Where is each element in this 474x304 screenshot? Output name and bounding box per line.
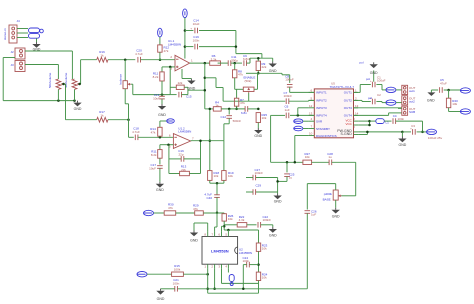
wire bbox=[247, 224, 257, 226]
wire bbox=[36, 38, 38, 42]
wire bbox=[290, 87, 315, 92]
svg-text:10k: 10k bbox=[228, 217, 233, 221]
blue component TP2 bbox=[228, 269, 234, 286]
svg-text:47k: 47k bbox=[240, 101, 245, 105]
wire bbox=[431, 89, 438, 91]
ground C5 bbox=[427, 90, 435, 103]
svg-text:50k/volume: 50k/volume bbox=[64, 72, 68, 88]
svg-text:J4: J4 bbox=[17, 19, 21, 23]
wire bbox=[160, 143, 174, 146]
svg-text:14: 14 bbox=[355, 111, 359, 115]
wire bbox=[25, 51, 72, 79]
wire bbox=[235, 78, 244, 90]
wire bbox=[154, 212, 165, 214]
wire bbox=[141, 59, 176, 61]
svg-text:1uF: 1uF bbox=[285, 108, 290, 112]
wire bbox=[222, 221, 226, 232]
supply V+ op-amp bbox=[183, 9, 188, 18]
svg-text:INPUT2: INPUT2 bbox=[316, 98, 327, 102]
svg-text:1k: 1k bbox=[215, 103, 219, 107]
svg-text:pol: pol bbox=[360, 61, 364, 65]
wire bbox=[159, 52, 161, 60]
svg-text:100nF: 100nF bbox=[255, 171, 264, 175]
svg-text:47k: 47k bbox=[168, 206, 173, 210]
capacitor C14 10uF bbox=[185, 19, 236, 34]
wire bbox=[243, 265, 246, 289]
capacitor C6 1uF bbox=[285, 105, 290, 119]
connector X2 out2 bbox=[402, 96, 416, 105]
svg-text:LM4558N: LM4558N bbox=[178, 130, 191, 134]
svg-text:out2: out2 bbox=[409, 100, 415, 104]
ground op-amp U1.1 bbox=[182, 69, 196, 90]
svg-text:1u: 1u bbox=[289, 176, 293, 180]
svg-text:LM4558N: LM4558N bbox=[168, 42, 181, 46]
potentiometer R5 balance bbox=[118, 74, 130, 89]
svg-text:22p: 22p bbox=[178, 152, 183, 156]
jumper STANDBY bbox=[294, 126, 309, 131]
resistor R9 22k bbox=[256, 57, 267, 71]
wire bbox=[138, 136, 174, 139]
capacitor C17 10uF bbox=[149, 158, 163, 170]
resistor R20 10k bbox=[446, 90, 458, 108]
wire bbox=[449, 108, 461, 112]
wire bbox=[258, 230, 260, 243]
svg-text:INPUT1: INPUT1 bbox=[316, 91, 327, 95]
resistor R11b 8.2k bbox=[151, 145, 162, 159]
svg-text:S-GND: S-GND bbox=[341, 132, 353, 136]
wire bbox=[376, 102, 382, 103]
wire bbox=[205, 78, 249, 101]
capacitor C8 100nF bbox=[285, 75, 294, 88]
inductor L1 bbox=[370, 119, 390, 125]
capacitor C12 500nF bbox=[220, 109, 241, 123]
resistor R29 47k bbox=[193, 204, 203, 216]
svg-text:(50k): (50k) bbox=[245, 79, 252, 83]
wire bbox=[210, 180, 224, 184]
wire bbox=[246, 72, 258, 74]
ground U2 pin8 bbox=[190, 223, 208, 243]
jumper remote+ bbox=[460, 88, 470, 93]
svg-text:22k: 22k bbox=[178, 81, 183, 85]
potentiometer R1 50k/volume bbox=[48, 72, 64, 89]
resistor R26 10k bbox=[222, 213, 234, 221]
svg-text:100n: 100n bbox=[398, 117, 405, 121]
resistor R18 10k bbox=[208, 171, 220, 181]
svg-text:stereo-in: stereo-in bbox=[3, 28, 7, 40]
svg-text:C4: C4 bbox=[393, 114, 397, 118]
wire bbox=[206, 269, 209, 293]
wire bbox=[17, 29, 28, 38]
wire bbox=[203, 212, 224, 214]
resistor R25 10k bbox=[256, 113, 267, 123]
svg-text:STANDBY: STANDBY bbox=[316, 127, 330, 131]
wire OUT1 bbox=[354, 85, 371, 93]
svg-text:C3: C3 bbox=[411, 124, 415, 128]
resistor R27 10k bbox=[303, 152, 312, 165]
svg-text:47k: 47k bbox=[151, 131, 156, 135]
svg-text:OUT3: OUT3 bbox=[344, 106, 352, 110]
svg-text:C29: C29 bbox=[256, 184, 262, 188]
wire bbox=[25, 65, 58, 80]
jumper TP bbox=[160, 119, 174, 123]
svg-text:TDA7377L-V3 & 7: TDA7377L-V3 & 7 bbox=[330, 85, 355, 89]
svg-text:3.3k: 3.3k bbox=[211, 57, 217, 61]
svg-text:GND: GND bbox=[332, 215, 340, 219]
wire bbox=[224, 229, 258, 232]
capacitor C21 100n bbox=[173, 278, 180, 291]
audio jack X1 bbox=[29, 28, 44, 38]
wire bbox=[261, 225, 273, 227]
svg-text:47k: 47k bbox=[164, 49, 169, 53]
svg-text:p400k: p400k bbox=[324, 192, 333, 196]
wire bbox=[246, 191, 253, 193]
svg-text:10k: 10k bbox=[262, 276, 267, 280]
resistor R15 100k bbox=[172, 264, 184, 276]
svg-text:GND: GND bbox=[190, 239, 198, 243]
capacitor C16 22p bbox=[178, 149, 184, 162]
wire bbox=[224, 118, 229, 140]
svg-text:J2: J2 bbox=[11, 50, 15, 54]
svg-text:balance: balance bbox=[118, 74, 122, 85]
svg-text:J3: J3 bbox=[11, 63, 15, 67]
svg-text:GND: GND bbox=[274, 200, 282, 204]
svg-text:50k/volume: 50k/volume bbox=[48, 72, 52, 88]
trimmer ENABLE 50k bbox=[243, 76, 255, 93]
wire bbox=[358, 131, 404, 135]
wire bbox=[257, 251, 260, 272]
svg-text:10k: 10k bbox=[452, 102, 457, 106]
resistor R3 22k bbox=[176, 81, 184, 90]
capacitor C20 4.7uF bbox=[135, 49, 143, 63]
capacitor C40 4.7uF bbox=[204, 183, 219, 200]
wire bbox=[231, 62, 242, 65]
svg-text:GND: GND bbox=[74, 107, 82, 111]
wire bbox=[176, 212, 195, 214]
svg-text:1uF: 1uF bbox=[311, 212, 316, 216]
svg-text:10k: 10k bbox=[228, 174, 233, 178]
svg-text:GND: GND bbox=[370, 71, 378, 75]
svg-text:GND: GND bbox=[269, 234, 277, 238]
svg-text:GND: GND bbox=[156, 188, 164, 192]
resistor R12 47k bbox=[158, 45, 170, 53]
op-amp U1.1 LM4558N bbox=[168, 39, 193, 71]
svg-text:GND: GND bbox=[269, 69, 277, 73]
ground bbox=[269, 58, 278, 73]
svg-text:BASE: BASE bbox=[323, 198, 331, 202]
svg-text:1u: 1u bbox=[328, 155, 332, 159]
svg-text:GND: GND bbox=[158, 113, 166, 117]
resistor R7 47k bbox=[234, 89, 245, 106]
wire bbox=[183, 273, 209, 276]
svg-text:INPUT3: INPUT3 bbox=[316, 106, 327, 110]
capacitor C9 6.8nF bbox=[243, 54, 251, 66]
capacitor C7 100nF bbox=[284, 91, 293, 104]
wire bbox=[3, 99, 76, 102]
svg-text:+: + bbox=[370, 79, 372, 83]
wire bbox=[332, 162, 356, 196]
resistor R6 3.3k bbox=[210, 54, 221, 65]
wire bbox=[218, 62, 229, 64]
svg-text:4.7uF: 4.7uF bbox=[132, 130, 140, 134]
wire bbox=[190, 62, 210, 65]
capacitor C18 4.7uF bbox=[129, 127, 141, 141]
wire OUT4 bbox=[354, 113, 402, 116]
svg-text:LM4558N: LM4558N bbox=[239, 251, 252, 255]
svg-text:OUT1: OUT1 bbox=[344, 91, 352, 95]
capacitor C13 6.8n bbox=[241, 106, 248, 115]
wire bbox=[235, 31, 262, 59]
wire bbox=[312, 161, 330, 163]
svg-text:4.7uF: 4.7uF bbox=[135, 52, 143, 56]
wire bus bbox=[177, 288, 307, 291]
connector X3 SUB bbox=[402, 106, 416, 115]
IC U2 LM4558N bbox=[202, 232, 252, 269]
svg-text:GND: GND bbox=[157, 297, 165, 301]
svg-text:10: 10 bbox=[309, 132, 313, 136]
wire bbox=[191, 139, 224, 142]
wire bbox=[290, 108, 314, 117]
svg-text:GND: GND bbox=[399, 143, 407, 147]
svg-text:C2: C2 bbox=[377, 93, 381, 97]
svg-text:+: + bbox=[190, 26, 192, 30]
wire bbox=[62, 83, 65, 120]
jumper power +12V bbox=[427, 129, 437, 134]
resistor R22 4.3k bbox=[224, 215, 247, 227]
svg-text:10uF: 10uF bbox=[153, 97, 160, 101]
svg-text:GND: GND bbox=[254, 134, 262, 138]
wire bbox=[184, 18, 187, 59]
capacitor C1 100uF bbox=[366, 76, 386, 88]
svg-text:12: 12 bbox=[309, 104, 313, 108]
wire bbox=[258, 73, 289, 75]
svg-text:47k: 47k bbox=[193, 207, 198, 211]
capacitor C29 100n bbox=[253, 184, 278, 195]
svg-text:10k: 10k bbox=[262, 116, 267, 120]
ground bbox=[156, 182, 165, 192]
svg-text:LM4558N: LM4558N bbox=[211, 248, 229, 253]
svg-text:VCC: VCC bbox=[345, 122, 352, 126]
wire bbox=[147, 273, 172, 275]
wire bbox=[204, 63, 207, 109]
svg-text:8.2k: 8.2k bbox=[151, 153, 157, 157]
wire bbox=[170, 67, 176, 95]
capacitor C25 1u bbox=[284, 162, 295, 179]
svg-text:10uF: 10uF bbox=[149, 167, 156, 171]
connector J2 bbox=[11, 48, 26, 59]
wire bbox=[249, 93, 286, 101]
svg-text:100n: 100n bbox=[243, 259, 250, 263]
wire bbox=[248, 108, 260, 111]
wire bbox=[235, 106, 238, 110]
wire bbox=[254, 73, 258, 89]
svg-text:100nF: 100nF bbox=[284, 94, 293, 98]
wire bbox=[169, 145, 181, 174]
capacitor C19 100n bbox=[185, 35, 236, 49]
svg-text:100nF: 100nF bbox=[285, 78, 294, 82]
wire bbox=[417, 131, 428, 133]
svg-text:out1: out1 bbox=[409, 89, 415, 93]
wire bbox=[216, 197, 219, 214]
svg-text:47uF: 47uF bbox=[440, 82, 447, 86]
svg-text:C12: C12 bbox=[220, 115, 226, 119]
svg-text:10k: 10k bbox=[262, 247, 267, 251]
svg-text:INPUT4: INPUT4 bbox=[316, 114, 327, 118]
svg-text:1k: 1k bbox=[100, 114, 104, 118]
resistor R14 47k bbox=[150, 121, 162, 137]
svg-text:10uF: 10uF bbox=[193, 22, 200, 26]
wire bbox=[159, 37, 161, 45]
wire bbox=[209, 109, 212, 171]
wire bbox=[222, 269, 259, 284]
ground bbox=[360, 61, 379, 82]
jumper remote- bbox=[460, 109, 470, 114]
connector J4 bbox=[3, 19, 20, 43]
svg-text:100k: 100k bbox=[174, 267, 181, 271]
ground bbox=[332, 208, 341, 219]
ground bbox=[156, 289, 165, 301]
capacitor C15 bbox=[179, 92, 192, 99]
resistor R19 10k bbox=[222, 141, 234, 181]
wire OUT3 bbox=[354, 107, 402, 110]
resistor R4 1k bbox=[205, 100, 221, 111]
wire bbox=[246, 177, 253, 179]
resistor R24 10k bbox=[256, 272, 267, 280]
svg-text:13: 13 bbox=[355, 104, 359, 108]
svg-text:OUT2: OUT2 bbox=[344, 98, 352, 102]
capacitor C27 100nF bbox=[253, 168, 278, 180]
wire bbox=[335, 184, 337, 208]
resistor R13 22k bbox=[180, 165, 190, 176]
svg-text:GND: GND bbox=[427, 99, 435, 103]
ground bbox=[269, 227, 278, 238]
svg-text:10k: 10k bbox=[214, 174, 219, 178]
wire bbox=[376, 85, 382, 90]
wire bbox=[396, 121, 424, 133]
svg-text:6.8n: 6.8n bbox=[241, 111, 247, 115]
svg-text:pol: pol bbox=[366, 77, 370, 81]
capacitor C11 390p bbox=[228, 55, 238, 66]
wire bbox=[271, 161, 303, 164]
svg-text:13: 13 bbox=[309, 111, 313, 115]
resistor R8 47k bbox=[233, 63, 244, 78]
jumper out1 bbox=[382, 87, 402, 92]
capacitor C5 47uF bbox=[440, 78, 447, 93]
wire bbox=[271, 115, 285, 162]
wire bbox=[221, 108, 245, 111]
svg-text:22k: 22k bbox=[262, 65, 267, 69]
svg-text:22k: 22k bbox=[181, 168, 186, 172]
wire bbox=[306, 213, 308, 288]
svg-text:100nF: 100nF bbox=[263, 218, 272, 222]
resistor R11 8.2k bbox=[153, 67, 165, 81]
wire bbox=[159, 168, 161, 182]
wire bbox=[215, 213, 217, 232]
wire bbox=[161, 288, 175, 290]
capacitor C2 100uF bbox=[368, 93, 381, 104]
wire DIAGNOSTICS bbox=[295, 136, 309, 163]
capacitor C4 100n bbox=[393, 114, 405, 124]
wire bbox=[108, 118, 130, 121]
ground bbox=[273, 192, 282, 204]
svg-text:GND: GND bbox=[188, 86, 196, 90]
wire bbox=[213, 269, 216, 290]
capacitor C13 10uF bbox=[153, 81, 165, 101]
wire bbox=[208, 281, 259, 294]
svg-text:100n: 100n bbox=[193, 39, 200, 43]
resistor R23 10k bbox=[256, 243, 267, 251]
svg-text:1k: 1k bbox=[100, 54, 104, 58]
svg-text:500nF: 500nF bbox=[233, 119, 242, 123]
wire bbox=[276, 177, 287, 193]
wire bbox=[184, 141, 201, 174]
capacitor C28 bbox=[327, 152, 333, 165]
wire bbox=[182, 87, 205, 94]
jumper SVR bbox=[294, 119, 309, 124]
svg-text:100uF: 100uF bbox=[377, 79, 386, 83]
connector J3 bbox=[11, 61, 26, 72]
wire bbox=[125, 89, 128, 138]
wire bbox=[247, 58, 273, 63]
wire bbox=[289, 99, 315, 102]
resistor R17 1k bbox=[66, 110, 109, 122]
op-amp U1.2 LM4558N bbox=[169, 126, 194, 148]
svg-text:4.3k: 4.3k bbox=[239, 218, 245, 222]
wire bbox=[444, 89, 461, 92]
wire bbox=[58, 89, 74, 100]
svg-text:C40: C40 bbox=[206, 196, 212, 200]
svg-text:390p: 390p bbox=[231, 58, 238, 62]
wire bbox=[254, 123, 263, 139]
capacitor C22 100nF bbox=[258, 215, 271, 228]
wire bbox=[257, 71, 260, 75]
ground bbox=[158, 99, 167, 117]
wire bbox=[162, 66, 175, 69]
svg-text:100uF 25v: 100uF 25v bbox=[428, 136, 443, 140]
IC U5 TDA7377 bbox=[309, 82, 359, 138]
capacitor C3 100uF 25v bbox=[402, 124, 442, 140]
wire bbox=[78, 60, 81, 86]
resistor R30 47k bbox=[164, 203, 176, 216]
connector X1 out1 bbox=[402, 85, 416, 94]
wire bbox=[384, 120, 391, 122]
potentiometer R2 50k/volume bbox=[64, 72, 80, 89]
wire balance wiper bbox=[131, 84, 170, 96]
svg-text:OUT4: OUT4 bbox=[344, 114, 352, 118]
jumper out2 bbox=[382, 100, 402, 105]
wire VCC bbox=[358, 120, 371, 126]
trimmer BASE p400k bbox=[323, 190, 342, 202]
svg-text:SVR: SVR bbox=[316, 120, 323, 124]
svg-text:C15: C15 bbox=[186, 95, 192, 99]
ground bbox=[73, 101, 82, 111]
svg-text:SUB: SUB bbox=[409, 110, 415, 114]
supply V+ bbox=[158, 28, 163, 37]
wire bbox=[3, 58, 15, 101]
wire bbox=[124, 60, 126, 81]
ground bbox=[32, 42, 41, 52]
jumper aux bbox=[144, 210, 154, 215]
capacitor C26 1uF bbox=[305, 184, 336, 217]
svg-text:8.2k: 8.2k bbox=[153, 75, 159, 79]
capacitor C24 100n bbox=[243, 256, 259, 268]
svg-text:DIAGNOSTICS: DIAGNOSTICS bbox=[316, 134, 337, 138]
resistor R16 1k bbox=[81, 50, 108, 62]
svg-text:pol: pol bbox=[368, 96, 372, 100]
wire OUT2 bbox=[354, 100, 371, 101]
jumper aux2 bbox=[137, 272, 147, 277]
wire bbox=[108, 58, 161, 61]
ground bbox=[398, 132, 407, 147]
